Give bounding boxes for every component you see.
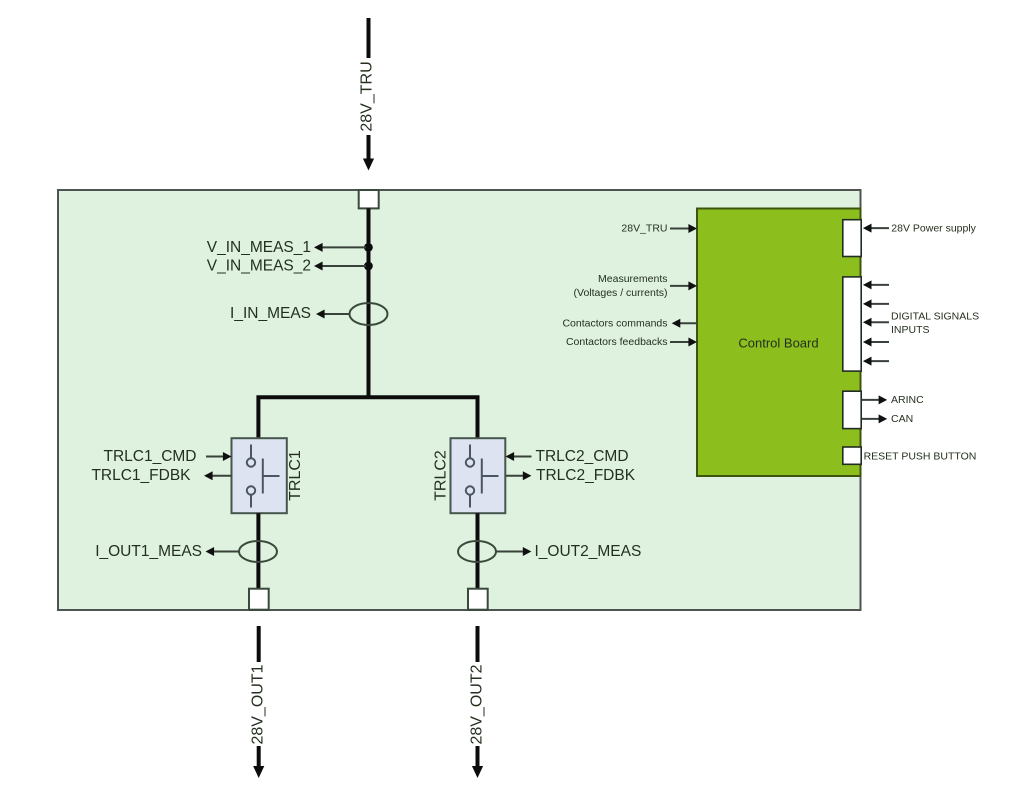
svg-text:28V_OUT1: 28V_OUT1 <box>250 664 267 744</box>
wire/arrow TRLC1_CMD <box>206 452 232 461</box>
wire 28V_TRU input <box>363 18 374 171</box>
wire TRLC2 output <box>476 513 480 589</box>
wire/arrow 28V power supply <box>863 224 889 233</box>
wire T-junction to contactors <box>258 397 477 438</box>
wire/arrow TRLC1_FDBK <box>204 471 232 480</box>
connector J_OUT1 <box>249 589 269 610</box>
connector 28V power supply <box>843 220 861 257</box>
svg-text:(Voltages / currents): (Voltages / currents) <box>574 287 668 299</box>
svg-text:I_OUT1_MEAS: I_OUT1_MEAS <box>95 543 202 560</box>
net label 28V_OUT2 <box>469 662 487 746</box>
svg-text:28V Power supply: 28V Power supply <box>891 223 976 235</box>
wire/arrow I_OUT2_MEAS <box>496 547 531 556</box>
svg-text:DIGITAL SIGNALS: DIGITAL SIGNALS <box>891 311 979 323</box>
label DIGITAL SIGNALS INPUTS <box>891 311 979 336</box>
wire/arrow CAN <box>862 414 887 423</box>
net label 28V_TRU <box>359 58 377 135</box>
wire 28V_OUT1 <box>253 626 264 778</box>
svg-text:TRLC1: TRLC1 <box>287 450 304 501</box>
net label 28V_OUT1 <box>250 662 268 746</box>
wire/arrow ARINC <box>862 395 887 404</box>
connector digital signals <box>843 277 861 371</box>
svg-text:ARINC: ARINC <box>891 394 924 406</box>
wire/arrow 28V_TRU to board <box>670 224 697 233</box>
wire/arrow digital input 1 <box>863 280 889 289</box>
wire/arrow TRLC2_FDBK <box>506 471 532 480</box>
svg-text:Control Board: Control Board <box>738 336 818 351</box>
svg-text:28V_TRU: 28V_TRU <box>621 223 667 235</box>
wire 28V_OUT2 <box>472 626 483 778</box>
wire/arrow digital input 5 <box>863 357 889 366</box>
wire/arrow digital input 3 <box>863 318 889 327</box>
control board U1 <box>697 209 861 477</box>
wire/arrow I_OUT1_MEAS <box>206 547 240 556</box>
svg-text:V_IN_MEAS_2: V_IN_MEAS_2 <box>207 258 311 275</box>
svg-text:RESET PUSH BUTTON: RESET PUSH BUTTON <box>864 450 977 462</box>
current sensor I_OUT1_MEAS <box>239 541 277 562</box>
svg-text:CAN: CAN <box>891 413 913 425</box>
svg-text:TRLC2_CMD: TRLC2_CMD <box>536 448 629 465</box>
wire/arrow measurements to board <box>670 281 697 290</box>
wire input bus <box>367 208 371 397</box>
wire/arrow contactors commands from board <box>672 319 697 328</box>
current sensor I_IN_MEAS <box>350 303 388 325</box>
svg-text:V_IN_MEAS_1: V_IN_MEAS_1 <box>207 239 311 256</box>
contactor TRLC2 <box>451 438 506 513</box>
wire/arrow V_IN_MEAS_2 <box>314 262 366 271</box>
svg-text:INPUTS: INPUTS <box>891 324 930 336</box>
svg-text:Measurements: Measurements <box>598 273 667 285</box>
svg-text:TRLC1_CMD: TRLC1_CMD <box>103 448 196 465</box>
connector reset push button <box>843 447 861 464</box>
svg-text:Contactors feedbacks: Contactors feedbacks <box>566 336 668 348</box>
connector J_OUT2 <box>468 589 488 610</box>
svg-text:28V_OUT2: 28V_OUT2 <box>469 664 486 744</box>
node V_IN_MEAS_1 tap <box>364 243 373 252</box>
wire TRLC1 output <box>256 513 260 589</box>
svg-text:I_IN_MEAS: I_IN_MEAS <box>230 305 311 322</box>
wire/arrow contactors feedbacks to board <box>670 338 697 347</box>
wire/arrow I_IN_MEAS <box>316 310 350 319</box>
connector J_IN (28V_TRU terminal) <box>359 190 379 208</box>
svg-text:TRLC1_FDBK: TRLC1_FDBK <box>91 467 191 484</box>
unit outer box <box>58 190 861 610</box>
svg-text:I_OUT2_MEAS: I_OUT2_MEAS <box>535 543 642 560</box>
contactor TRLC1 <box>232 438 287 513</box>
current sensor I_OUT2_MEAS <box>458 541 496 562</box>
svg-text:TRLC2: TRLC2 <box>432 450 449 501</box>
wire/arrow digital input 4 <box>863 338 889 347</box>
connector ARINC/CAN <box>843 391 861 428</box>
node V_IN_MEAS_2 tap <box>364 262 373 271</box>
svg-text:Contactors commands: Contactors commands <box>562 317 667 329</box>
svg-text:TRLC2_FDBK: TRLC2_FDBK <box>536 467 636 484</box>
wire/arrow TRLC2_CMD <box>506 452 532 461</box>
svg-text:28V_TRU: 28V_TRU <box>359 61 376 131</box>
wire/arrow V_IN_MEAS_1 <box>314 243 366 252</box>
wire/arrow digital input 2 <box>863 299 889 308</box>
